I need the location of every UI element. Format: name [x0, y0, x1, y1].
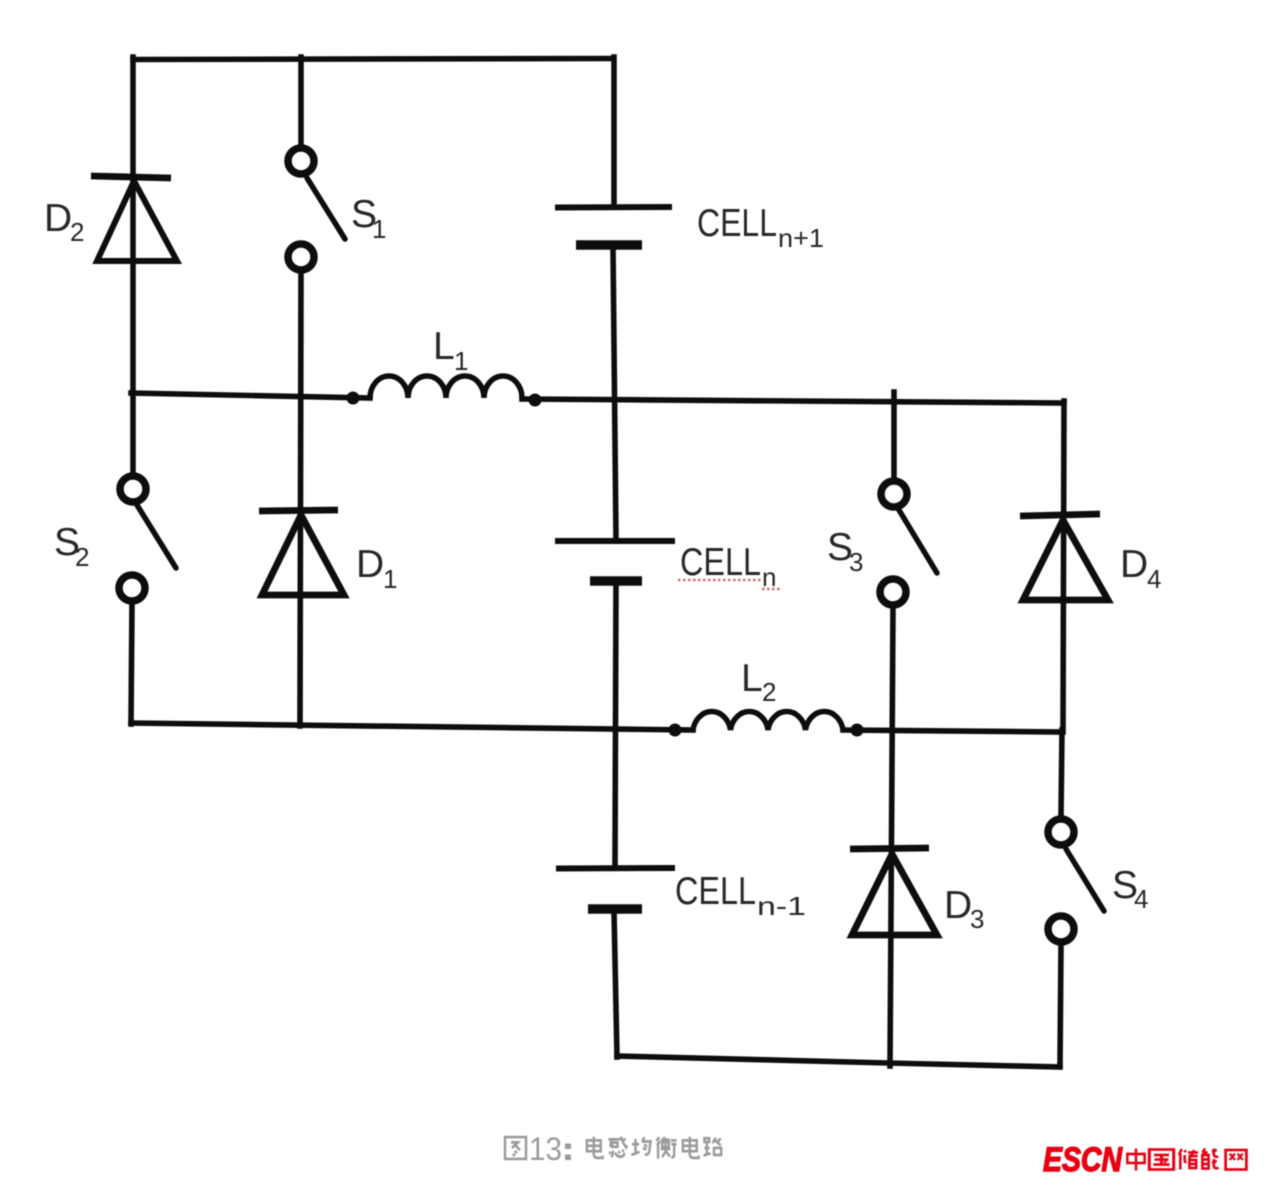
node dot L1 left: [347, 392, 360, 405]
wire cell column (CELLn to CELLn-1, crossing lower rail): [615, 583, 616, 866]
wire D4 column: [1063, 401, 1064, 732]
battery CELL n-1: [556, 868, 675, 909]
svg-text:D: D: [1120, 543, 1148, 586]
caption fullwidth colon: [565, 1144, 571, 1161]
caption figure title: 图13：电感均衡电路: [505, 1137, 526, 1159]
wire cell column mid (CELLn+1 to CELLn, crossing middle rail): [613, 247, 616, 539]
node dot L1 right: [529, 394, 542, 407]
svg-text:13: 13: [529, 1131, 562, 1167]
wire lower rail left segment: [131, 723, 693, 730]
svg-text:L: L: [741, 657, 763, 700]
svg-text:n+1: n+1: [778, 223, 824, 253]
svg-text:CELL: CELL: [697, 202, 777, 245]
svg-text:D: D: [44, 197, 72, 240]
diode D2: [91, 176, 177, 261]
wire S4 bottom stub: [1060, 945, 1061, 1066]
spellcheck underline under CELL n: [678, 580, 780, 589]
svg-text:L: L: [433, 325, 455, 368]
inductor L2: [693, 712, 843, 730]
svg-text:D: D: [944, 884, 972, 927]
svg-text:3: 3: [970, 904, 984, 934]
wire cell column top (top rail to CELLn+1): [611, 57, 617, 205]
svg-text:2: 2: [75, 542, 89, 572]
svg-text:2: 2: [762, 677, 776, 707]
svg-text:D: D: [356, 543, 384, 586]
diode D1: [259, 510, 344, 595]
wire S4 top stub: [1061, 730, 1062, 816]
svg-text:1: 1: [372, 214, 386, 244]
wire lower rail right segment: [843, 730, 1062, 732]
svg-text:CELL: CELL: [680, 541, 761, 584]
svg-text:3: 3: [849, 547, 863, 577]
switch S3: [880, 481, 937, 605]
switch S4: [1048, 819, 1104, 942]
switch S2: [119, 476, 176, 601]
svg-text:n-1: n-1: [757, 891, 806, 921]
wire S3 to D3 column down to bottom rail: [890, 608, 893, 1066]
wire middle rail right segment: [522, 399, 1064, 403]
svg-text:4: 4: [1134, 884, 1148, 914]
logo Chinese characters: 中国储能网: [1127, 1149, 1246, 1171]
svg-text:1: 1: [383, 564, 397, 594]
wire middle rail left segment: [131, 393, 370, 398]
switch S1: [288, 148, 345, 270]
svg-text:1: 1: [454, 346, 468, 376]
node dot L2 left: [669, 724, 682, 737]
node dot L2 right: [851, 724, 864, 737]
wire left column (top rail to S2): [130, 57, 136, 474]
battery CELL n: [555, 541, 675, 581]
wire S2 bottom stub: [131, 603, 132, 724]
diode D3: [850, 848, 937, 935]
svg-text:n: n: [762, 562, 776, 592]
wire bottom rail: [617, 1056, 1060, 1067]
battery CELL n+1: [555, 207, 672, 245]
svg-text:4: 4: [1147, 564, 1161, 594]
diode D4: [1020, 514, 1108, 600]
wire S1 to D1 column down to lower rail: [300, 272, 301, 726]
wire S1 top stub: [298, 57, 304, 146]
wire cell column bottom (CELLn-1 to bottom rail): [614, 911, 617, 1057]
svg-text:2: 2: [70, 217, 84, 247]
svg-text:ESCN: ESCN: [1043, 1141, 1123, 1179]
inductor L1: [370, 376, 522, 398]
svg-text:CELL: CELL: [675, 870, 756, 913]
wire top rail: [133, 59, 613, 60]
wire S3 top stub: [891, 392, 897, 478]
